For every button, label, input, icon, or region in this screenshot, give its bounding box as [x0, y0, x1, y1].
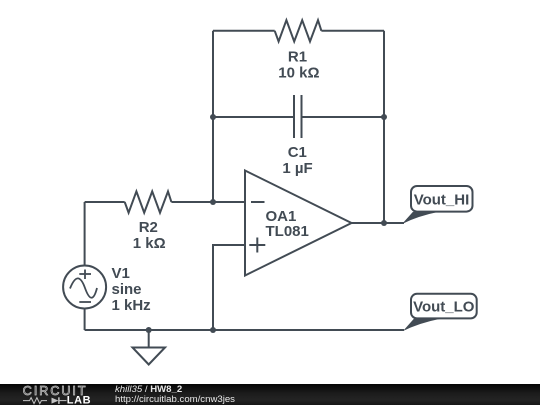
- svg-text:1 µF: 1 µF: [282, 160, 312, 177]
- svg-text:Vout_LO: Vout_LO: [413, 299, 475, 316]
- svg-text:TL081: TL081: [266, 223, 309, 240]
- svg-text:C1: C1: [288, 144, 307, 161]
- svg-text:sine: sine: [112, 281, 142, 298]
- svg-text:LAB: LAB: [67, 394, 91, 405]
- svg-text:Vout_HI: Vout_HI: [414, 192, 470, 209]
- svg-text:R2: R2: [139, 219, 158, 236]
- svg-text:V1: V1: [112, 265, 130, 282]
- svg-text:1 kΩ: 1 kΩ: [133, 235, 166, 252]
- svg-text:R1: R1: [288, 49, 307, 66]
- svg-text:1 kHz: 1 kHz: [112, 297, 151, 314]
- svg-text:10 kΩ: 10 kΩ: [278, 65, 319, 82]
